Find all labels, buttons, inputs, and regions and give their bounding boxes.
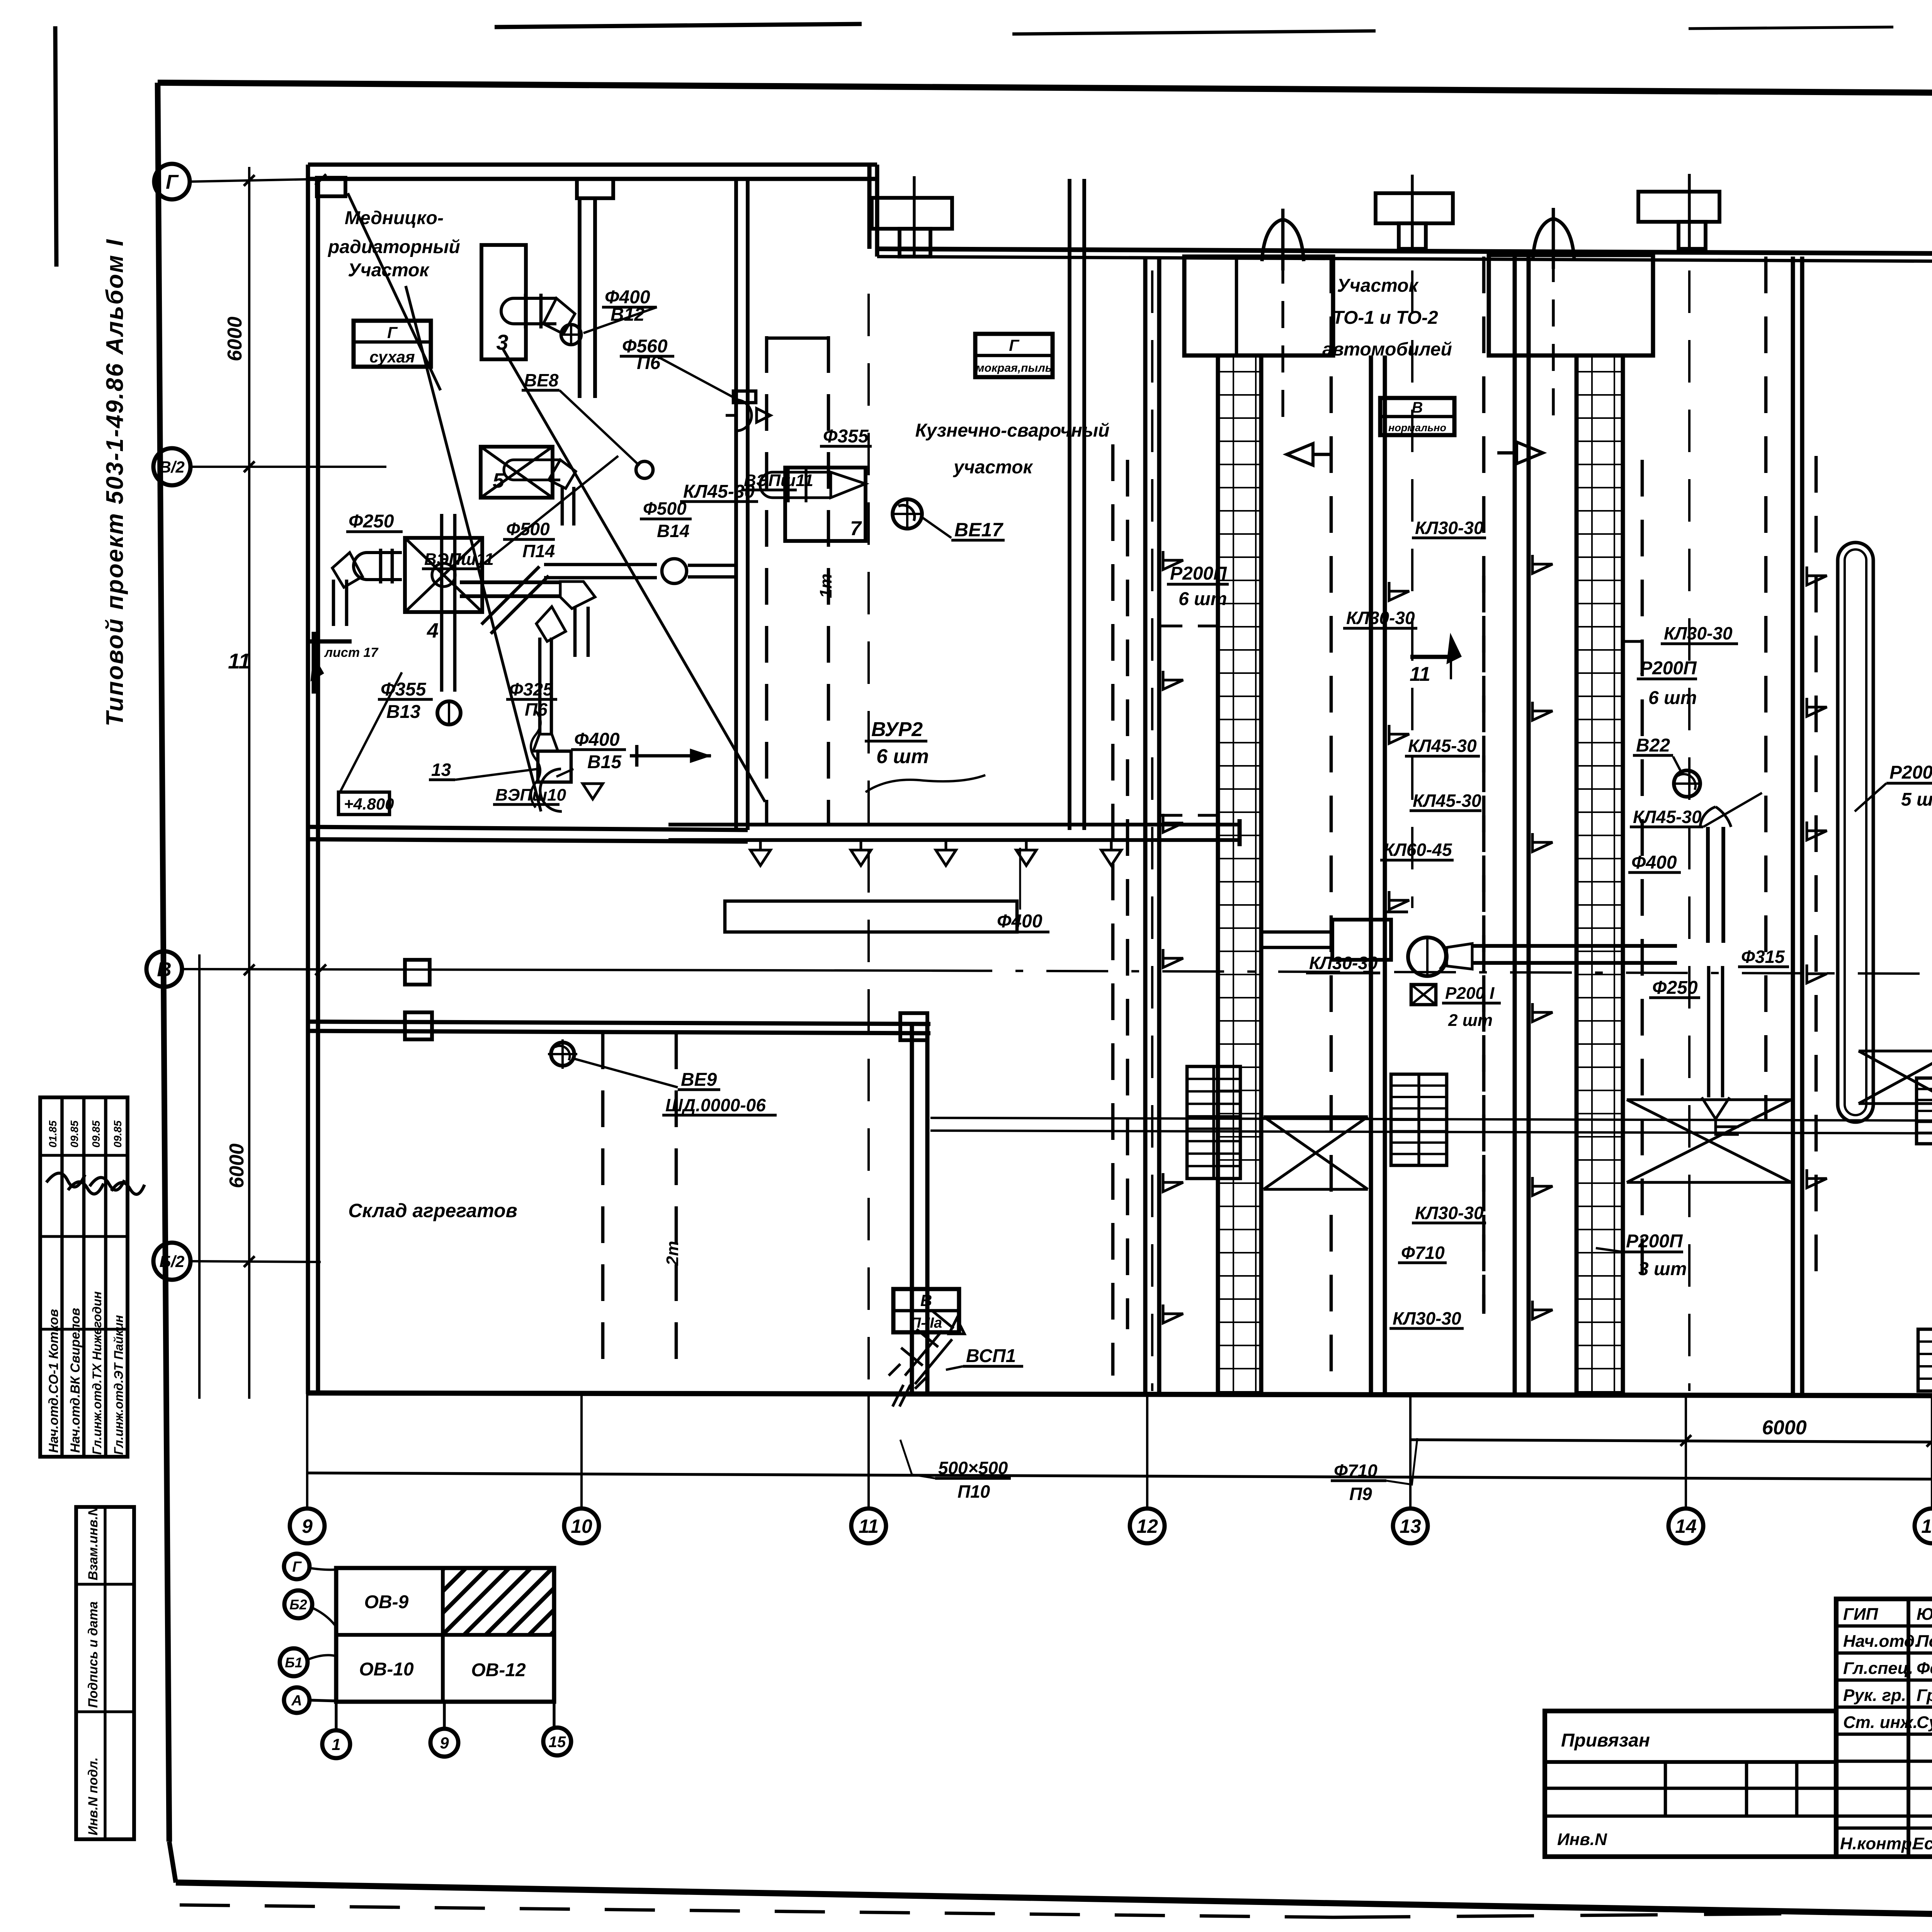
- svg-text:участок: участок: [953, 457, 1033, 478]
- svg-text:Р200П: Р200П: [1626, 1231, 1683, 1252]
- svg-text:ВУР2: ВУР2: [871, 718, 923, 741]
- svg-text:Г: Г: [166, 171, 179, 194]
- svg-text:3 шт: 3 шт: [1638, 1259, 1687, 1279]
- svg-text:Г: Г: [1009, 336, 1020, 354]
- label box G suhaya: [354, 321, 431, 367]
- top wall low bay: [877, 249, 1932, 254]
- hatched conveyor strip A: [1218, 355, 1261, 1393]
- svg-text:14: 14: [1675, 1515, 1697, 1537]
- svg-text:В22: В22: [1636, 735, 1670, 756]
- stairs hall left: [1187, 1066, 1240, 1179]
- fan VE17: [893, 499, 922, 529]
- svg-text:4: 4: [427, 619, 439, 642]
- equipment 5 rect with cross: [481, 447, 553, 498]
- svg-text:Подпись и дата: Подпись и дата: [86, 1601, 100, 1708]
- sheet frame top border: [158, 83, 1932, 97]
- grid bubble 14: [1685, 1394, 1687, 1509]
- svg-text:6 шт: 6 шт: [1179, 589, 1227, 609]
- svg-text:11: 11: [1410, 663, 1430, 685]
- grid bubble 9: [306, 1394, 308, 1509]
- hall crossing line upper: [930, 1118, 1932, 1121]
- dimension line A bottom right: [1410, 1440, 1932, 1442]
- svg-text:П10: П10: [957, 1481, 990, 1502]
- big duct arrow left lane A: [1287, 444, 1313, 465]
- svg-text:В/2: В/2: [159, 458, 184, 476]
- wall medni right partition: [734, 179, 738, 830]
- strip B top arrow: [1533, 219, 1574, 260]
- svg-text:КЛ45-30: КЛ45-30: [1633, 807, 1702, 827]
- wavy break line: [531, 711, 541, 808]
- grid bubble 12: [1146, 1394, 1148, 1509]
- equipment 7 rect: [785, 468, 866, 541]
- monorail 2t dashed rect: [601, 1032, 605, 1376]
- lane wall B right: [1791, 257, 1795, 1394]
- svg-text:В15: В15: [587, 752, 622, 772]
- svg-text:Нач.отд.: Нач.отд.: [1843, 1632, 1919, 1651]
- svg-text:Ст. инж.: Ст. инж.: [1843, 1713, 1918, 1732]
- strip B chamber: [1489, 255, 1653, 355]
- axis bubble B/2: [153, 1243, 190, 1280]
- VUR2 funnels: [747, 840, 774, 866]
- sheet frame bottom border: [169, 1842, 176, 1883]
- svg-text:Гл.спец.: Гл.спец.: [1843, 1659, 1913, 1678]
- svg-text:П9: П9: [1349, 1484, 1372, 1504]
- legend axis bubble B2: [284, 1590, 312, 1618]
- svg-text:9: 9: [302, 1515, 313, 1537]
- fan VE8 circle: [636, 461, 653, 478]
- svg-text:Юрин: Юрин: [1917, 1605, 1932, 1624]
- dimension line B bottom: [307, 1473, 1932, 1479]
- svg-text:Участок: Участок: [1337, 276, 1419, 296]
- svg-text:П6: П6: [637, 353, 661, 373]
- svg-text:Кузнечно-сварочный: Кузнечно-сварочный: [915, 420, 1110, 441]
- svg-text:Ф710: Ф710: [1401, 1243, 1445, 1263]
- KL dashed duct lines: [1330, 257, 1333, 1376]
- svg-text:3: 3: [496, 330, 508, 354]
- svg-text:12: 12: [1136, 1515, 1158, 1537]
- svg-text:1т: 1т: [816, 573, 835, 598]
- svg-text:01.85: 01.85: [47, 1121, 59, 1148]
- svg-text:Ф500: Ф500: [506, 519, 550, 539]
- label +4.800: [338, 792, 389, 815]
- svg-text:6000: 6000: [224, 316, 246, 361]
- svg-text:Б/2: Б/2: [160, 1252, 185, 1270]
- personnel table columns: [1906, 1599, 1910, 1857]
- duct F400 capsule from equipment 3: [501, 298, 556, 324]
- svg-text:Инв.N: Инв.N: [1557, 1830, 1607, 1849]
- bottom dashed trim line: [180, 1905, 1333, 1917]
- svg-text:В13: В13: [386, 702, 420, 722]
- svg-text:7: 7: [850, 517, 862, 540]
- svg-text:6000: 6000: [1762, 1417, 1807, 1439]
- svg-text:КЛ30-30: КЛ30-30: [1415, 1203, 1484, 1223]
- VUR2 duct along bench: [668, 838, 1240, 842]
- svg-text:10: 10: [571, 1515, 592, 1537]
- svg-text:ГИП: ГИП: [1843, 1605, 1879, 1624]
- svg-text:Типовой проект 503-1-49.86 А: Типовой проект 503-1-49.86 Альбом I: [102, 238, 128, 726]
- svg-text:2 шт: 2 шт: [1448, 1011, 1493, 1030]
- svg-text:Ф400: Ф400: [574, 730, 620, 750]
- svg-text:Нач.отд.СО-1 Котков: Нач.отд.СО-1 Котков: [46, 1309, 61, 1453]
- svg-text:автомобилей: автомобилей: [1322, 339, 1452, 360]
- svg-text:КЛ30-30: КЛ30-30: [1393, 1308, 1461, 1328]
- axis V line: [182, 969, 930, 971]
- svg-text:2т: 2т: [663, 1241, 682, 1266]
- svg-text:ВЭПш11: ВЭПш11: [424, 550, 494, 569]
- svg-text:КЛ45-30: КЛ45-30: [683, 481, 755, 502]
- bench rect under VUR2: [725, 901, 1017, 932]
- svg-text:ОВ-10: ОВ-10: [359, 1659, 414, 1680]
- svg-text:В14: В14: [657, 521, 689, 541]
- svg-text:ВЕ17: ВЕ17: [954, 519, 1003, 541]
- legend table frame: [336, 1568, 554, 1702]
- duct capsule equipment 5: [504, 460, 560, 480]
- stairs mid lower: [1391, 1074, 1447, 1165]
- svg-text:Гл.инж.отд.ЭТ Пайкин: Гл.инж.отд.ЭТ Пайкин: [112, 1315, 126, 1455]
- svg-text:Г: Г: [387, 323, 398, 342]
- duct down from elbow: [573, 607, 577, 657]
- kuznechno right wall: [1068, 179, 1071, 830]
- KL dashed pair left of grid12: [1111, 444, 1115, 1376]
- svg-text:КЛ30-30: КЛ30-30: [1415, 518, 1484, 538]
- legend bottom bubble 9: [443, 1702, 446, 1729]
- svg-text:6 шт: 6 шт: [876, 745, 929, 768]
- svg-text:Суркова: Суркова: [1917, 1713, 1932, 1732]
- svg-text:КЛ30-30: КЛ30-30: [1309, 953, 1378, 973]
- stamp signatures scribble: [46, 1173, 145, 1194]
- title block left extension frame: [1545, 1711, 1836, 1857]
- svg-text:Федоркин: Федоркин: [1917, 1659, 1932, 1678]
- svg-text:КЛ45-30: КЛ45-30: [1413, 791, 1481, 811]
- sheet top paper edge: [495, 24, 862, 27]
- svg-text:радиаторный: радиаторный: [327, 237, 460, 257]
- svg-text:13: 13: [1400, 1515, 1421, 1537]
- svg-text:нормально: нормально: [1388, 422, 1446, 434]
- door cross lane B: [1627, 1098, 1791, 1101]
- svg-text:Нач.отд.ВК Свирелов: Нач.отд.ВК Свирелов: [68, 1308, 83, 1453]
- svg-text:Ф325: Ф325: [509, 679, 553, 699]
- svg-text:ВСП1: ВСП1: [966, 1346, 1016, 1366]
- svg-text:Гридасова: Гридасова: [1917, 1686, 1932, 1705]
- svg-text:Р200П: Р200П: [1170, 563, 1227, 584]
- section mark 11 center: [1410, 655, 1453, 659]
- svg-text:ОВ-9: ОВ-9: [364, 1592, 409, 1612]
- svg-text:Попова: Попова: [1917, 1632, 1932, 1651]
- personnel table rows: [1836, 1624, 1932, 1628]
- svg-text:1: 1: [332, 1735, 340, 1753]
- svg-text:А: А: [291, 1693, 302, 1709]
- V15 arrow symbol: [630, 754, 711, 758]
- pilaster grid10: [577, 179, 613, 198]
- fan V13 circle: [437, 701, 461, 724]
- svg-text:ШД.0000-06: ШД.0000-06: [665, 1095, 766, 1115]
- svg-text:П6: П6: [525, 699, 548, 719]
- stairs hall right lower: [1918, 1329, 1932, 1391]
- dashed connectors: [1159, 624, 1217, 627]
- svg-text:09.85: 09.85: [112, 1121, 124, 1148]
- duct capsule left of equipment 4: [354, 553, 402, 580]
- svg-text:Привязан: Привязан: [1561, 1730, 1650, 1751]
- svg-text:ВЭПш10: ВЭПш10: [495, 786, 566, 804]
- duct strip A to fan unit: [1261, 946, 1332, 949]
- stadium tall duct R200Sh: [1838, 543, 1873, 1122]
- axis bubble V: [146, 951, 182, 987]
- corner pilaster: [317, 178, 345, 196]
- svg-text:Ф400: Ф400: [997, 911, 1043, 932]
- lane arrows: [1163, 551, 1183, 570]
- svg-text:Б2: Б2: [289, 1597, 307, 1612]
- svg-text:Р200 I: Р200 I: [1445, 984, 1495, 1003]
- svg-text:лист 17: лист 17: [324, 645, 379, 660]
- legend axis bubble A: [284, 1687, 310, 1713]
- grid bubble 11: [867, 1394, 870, 1509]
- svg-text:В: В: [920, 1291, 932, 1310]
- strip A top arrow: [1262, 219, 1304, 261]
- duct elbow to fan V12: [543, 298, 575, 334]
- svg-text:П14: П14: [522, 541, 555, 561]
- lane wall B left: [1513, 257, 1517, 1394]
- fan on duct run: [662, 559, 687, 583]
- equipment 3 rect: [481, 245, 526, 359]
- legend axis bubble G: [284, 1554, 310, 1579]
- svg-text:Рук. гр.: Рук. гр.: [1843, 1686, 1906, 1705]
- equipment 4 pyramid: [405, 538, 482, 612]
- pilaster grid14 T-column: [1638, 192, 1719, 222]
- legend hatched cell: [443, 1568, 554, 1635]
- wall grid10 upper: [578, 198, 582, 398]
- svg-text:11: 11: [859, 1515, 879, 1537]
- funnel capsule item7: [760, 472, 831, 498]
- svg-text:Гл.инж.отд.ТХ Нижегодин: Гл.инж.отд.ТХ Нижегодин: [90, 1291, 104, 1455]
- svg-text:КЛ60-45: КЛ60-45: [1383, 840, 1452, 860]
- lane wall grid12: [1143, 257, 1148, 1394]
- svg-text:П-IIа: П-IIа: [910, 1315, 942, 1331]
- lane wall A right: [1369, 355, 1373, 1394]
- label box G mokraya pyl: [975, 334, 1053, 377]
- fan VE9: [551, 1043, 574, 1066]
- label box V normalno: [1380, 398, 1454, 435]
- svg-text:09.85: 09.85: [90, 1121, 102, 1148]
- label box V P-IIa: [893, 1289, 959, 1332]
- svg-text:6 шт: 6 шт: [1648, 688, 1697, 708]
- svg-text:сухая: сухая: [369, 348, 415, 366]
- extension grid cells: [1545, 1787, 1836, 1790]
- axis bubble G: [154, 164, 190, 199]
- hatched conveyor strip B: [1577, 355, 1623, 1393]
- svg-text:09.85: 09.85: [68, 1121, 80, 1148]
- VSP1 diagonal duct: [889, 1311, 954, 1389]
- svg-text:5 шт: 5 шт: [1901, 789, 1932, 810]
- axis B/2 line: [190, 1261, 321, 1262]
- cross duct horizontal: [1472, 961, 1677, 965]
- svg-text:Р200П: Р200П: [1640, 658, 1697, 679]
- wall medni bottom: [308, 827, 748, 830]
- title block personnel table frame: [1836, 1599, 1932, 1857]
- top wall step at grid 11: [867, 165, 872, 249]
- svg-text:Ф400: Ф400: [1631, 852, 1677, 873]
- svg-text:Р200 Ш: Р200 Ш: [1889, 762, 1932, 783]
- left stamp table: [40, 1097, 128, 1457]
- svg-text:15: 15: [1921, 1515, 1932, 1537]
- left wall: [306, 165, 310, 1394]
- pilaster grid13 T-column: [1376, 193, 1453, 223]
- svg-text:15: 15: [549, 1733, 566, 1750]
- svg-text:11: 11: [228, 649, 250, 673]
- grid bubble 15: [1931, 1394, 1932, 1509]
- svg-text:Н.контр.: Н.контр.: [1840, 1834, 1917, 1853]
- svg-text:Инв.N подл.: Инв.N подл.: [86, 1757, 100, 1835]
- stairs hall right upper: [1917, 1078, 1932, 1144]
- svg-text:мокрая,пыль: мокрая,пыль: [976, 362, 1052, 374]
- small box R200I: [1411, 985, 1436, 1005]
- strip A chamber: [1184, 257, 1333, 355]
- svg-text:ВЕ9: ВЕ9: [681, 1070, 717, 1090]
- svg-text:КЛ30-30: КЛ30-30: [1346, 608, 1415, 628]
- legend bottom bubble 15: [553, 1702, 555, 1728]
- svg-text:13: 13: [431, 760, 451, 780]
- duct elbow down from 4: [332, 553, 362, 587]
- vertical duct to fan V13: [440, 514, 444, 692]
- sklad right wall: [910, 1024, 914, 1394]
- svg-text:+4.800: +4.800: [344, 795, 394, 813]
- svg-text:Взам.инв.N: Взам.инв.N: [86, 1506, 100, 1580]
- svg-text:Б1: Б1: [285, 1655, 303, 1670]
- grid bubble 10: [580, 1394, 583, 1509]
- door cross right wall: [1859, 1049, 1932, 1052]
- column at axis V: [405, 960, 430, 985]
- fan unit on cross duct: [1332, 920, 1391, 960]
- svg-text:КЛ30-30: КЛ30-30: [1664, 623, 1733, 643]
- left paper edge mark: [55, 26, 56, 267]
- svg-text:В: В: [157, 959, 172, 981]
- sklad wall columns: [405, 1012, 432, 1039]
- VEPsh11 wall unit symbol: [736, 400, 752, 431]
- svg-text:Ф250: Ф250: [1652, 978, 1698, 998]
- monorail 1t dashed rect: [765, 336, 769, 823]
- svg-text:Есина: Есина: [1913, 1834, 1932, 1853]
- svg-text:КЛ45-30: КЛ45-30: [1408, 736, 1477, 756]
- left dimension chain line: [248, 167, 250, 1399]
- legend bottom bubble 1: [335, 1702, 337, 1730]
- sklad top wall: [308, 1022, 930, 1024]
- pilaster grid11 T-column: [872, 198, 952, 229]
- legend axis bubble B1: [280, 1648, 308, 1676]
- svg-text:Ф315: Ф315: [1741, 947, 1785, 967]
- left stamp strip: [76, 1507, 134, 1839]
- axis V/2 line: [190, 466, 386, 468]
- svg-text:Ф355: Ф355: [381, 679, 427, 700]
- elbow duct to V22 riser: [1706, 827, 1710, 943]
- equipment 13 duct: [536, 607, 566, 641]
- duct to VEPsh10 capsule: [540, 769, 562, 811]
- door cross lane A: [1264, 1115, 1368, 1118]
- sheet frame left border: [158, 83, 169, 1842]
- axis V dashed through hall: [930, 971, 1932, 974]
- bottom wall: [308, 1393, 1932, 1396]
- door break bottom wall: [893, 1385, 910, 1406]
- svg-text:Ф250: Ф250: [349, 511, 394, 532]
- svg-text:ОВ-12: ОВ-12: [471, 1660, 526, 1680]
- axis bubble V/2: [153, 448, 190, 485]
- top wall high bay: [308, 163, 877, 167]
- horizontal duct mid medni: [460, 594, 560, 598]
- svg-text:ВЕ8: ВЕ8: [524, 370, 559, 390]
- grid center dashed lines: [867, 294, 870, 1391]
- big duct arrow right lane B: [1517, 442, 1543, 464]
- svg-text:Г: Г: [292, 1559, 302, 1575]
- leader diagonal lines medni room: [348, 193, 440, 390]
- svg-text:Склад агрегатов: Склад агрегатов: [348, 1200, 517, 1221]
- hall crossing line lower: [930, 1131, 1932, 1133]
- duct run through partition: [491, 576, 549, 634]
- duct elbow down right of 5: [549, 460, 576, 488]
- V15 funnel symbol: [583, 784, 603, 799]
- axis G line: [190, 179, 327, 182]
- svg-text:9: 9: [440, 1734, 449, 1752]
- svg-text:6000: 6000: [226, 1143, 248, 1188]
- extension privyazan cell: [1545, 1760, 1836, 1764]
- svg-text:Ф355: Ф355: [823, 426, 869, 447]
- section mark 11 left: [309, 639, 352, 644]
- grid bubble 13: [1409, 1394, 1412, 1509]
- fan V12 circle: [561, 325, 581, 345]
- svg-text:ТО-1 и ТО-2: ТО-1 и ТО-2: [1332, 308, 1438, 328]
